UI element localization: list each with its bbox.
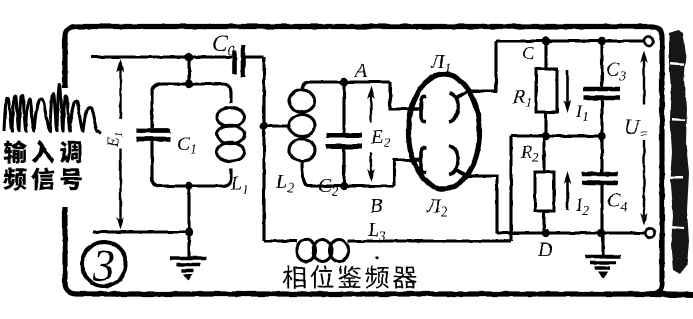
- node junction C4 bottom: [597, 229, 605, 237]
- text caption phase discriminator: [283, 266, 305, 289]
- capacitor C1: [150, 94, 153, 178]
- current I1 arrow: [566, 70, 569, 104]
- wire top A: [310, 80, 390, 83]
- wire tap: [264, 124, 291, 127]
- svg-text:D: D: [537, 239, 553, 261]
- input FM waveform: [4, 85, 101, 134]
- inductor L3: [297, 240, 316, 262]
- node junction top: [185, 53, 193, 61]
- node center tap junction: [260, 122, 268, 130]
- border frame: [65, 27, 662, 295]
- resistor R1: [544, 41, 547, 136]
- diode D2 anode: [410, 148, 427, 173]
- wire tank top: [152, 84, 231, 103]
- wire top rail: [496, 39, 645, 42]
- wire E1 baseline: [93, 230, 189, 233]
- terminal output top: [644, 36, 653, 45]
- capacitor C4: [600, 136, 603, 233]
- wire C0 down to L3 line: [262, 57, 265, 241]
- node E2 arrow: [370, 95, 372, 173]
- inductor L1: [217, 108, 245, 126]
- resistor R2: [542, 136, 545, 233]
- diode D1 cathode: [449, 92, 467, 123]
- terminal output bottom: [645, 228, 654, 237]
- wire L3 up to divider mid: [509, 136, 512, 241]
- page edge shadow right: [669, 30, 689, 274]
- node A: [340, 78, 348, 86]
- capacitor C2: [342, 82, 345, 186]
- node junction C3 top: [598, 37, 606, 45]
- node C: [542, 37, 550, 45]
- node B: [340, 182, 348, 190]
- capacitor C0: [235, 45, 244, 77]
- ground left: [170, 258, 206, 271]
- wire L3 line: [264, 239, 511, 242]
- wire: [187, 57, 190, 84]
- wire tank bottom: [152, 168, 231, 186]
- wire A to diode 1: [390, 82, 412, 109]
- voltage U arrow: [643, 60, 645, 216]
- capacitor C3: [600, 41, 603, 136]
- inductor L2: [302, 82, 310, 90]
- node D: [542, 229, 550, 237]
- ink speck: [375, 256, 378, 259]
- page rule line bottom right: [650, 294, 693, 295]
- diode D1 anode: [410, 97, 427, 122]
- wire cathode2 to D rail: [468, 176, 497, 233]
- node C3C4 junction: [598, 132, 606, 140]
- node E1 arrow: [119, 62, 121, 227]
- ground right: [585, 257, 621, 269]
- wire cathode1 to C: [468, 41, 496, 91]
- svg-text:3: 3: [92, 241, 115, 290]
- wire ground stem right: [601, 233, 604, 255]
- current I2 arrow: [566, 180, 569, 210]
- node R1R2 junction: [542, 132, 550, 140]
- svg-text:B: B: [370, 195, 382, 217]
- text input FM signal row1: [3, 140, 27, 163]
- wire middle: [511, 134, 602, 137]
- wire to ground: [187, 186, 190, 257]
- svg-text:C: C: [522, 43, 535, 63]
- tube envelope: [409, 74, 480, 189]
- diode D2 cathode: [449, 146, 468, 177]
- svg-text:A: A: [353, 60, 368, 82]
- wire B to diode 2: [394, 160, 412, 186]
- figure number 3: [82, 242, 126, 286]
- text input FM signal row2: [3, 167, 26, 190]
- wire bottom rail: [497, 231, 646, 234]
- wire top horizontal: [91, 55, 232, 58]
- wire bottom B: [308, 184, 394, 187]
